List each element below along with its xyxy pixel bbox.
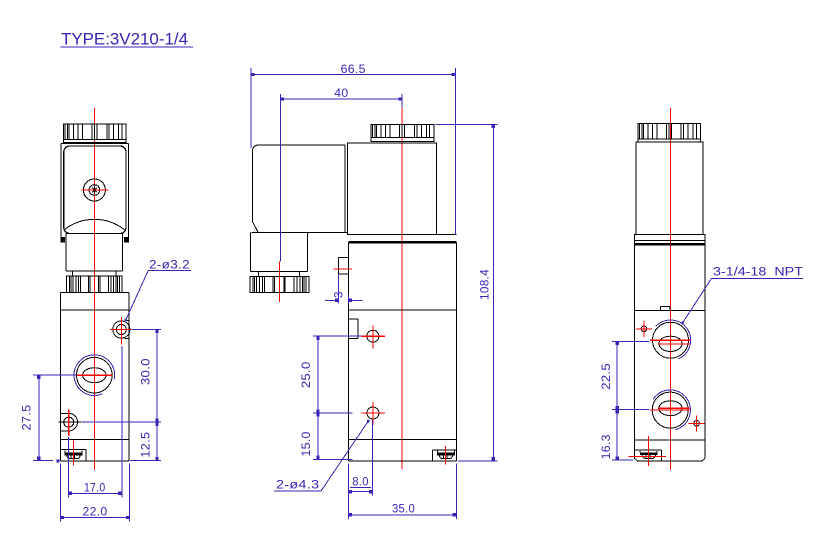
left view coil housing outer box: [61, 144, 129, 238]
dimension 27.5 left: [22, 375, 78, 462]
left view lower hole crosshair: [58, 410, 81, 437]
right view vertical center line: [669, 108, 671, 470]
right view pilot hole A: [636, 321, 652, 337]
svg-text:12.5: 12.5: [140, 432, 152, 458]
right view valve body outline: [634, 241, 705, 461]
title text TYPE:3V210-1/4: [61, 31, 193, 49]
svg-text:17.0: 17.0: [84, 483, 106, 495]
svg-text:2-ø4.3: 2-ø4.3: [276, 480, 319, 492]
dimension 108.4 right: [436, 124, 498, 461]
middle view connector stem: [251, 232, 308, 276]
left view port red crosshair: [77, 374, 112, 376]
svg-text:3-1/4-18 NPT: 3-1/4-18 NPT: [713, 266, 803, 278]
dimension 3 tab: [325, 274, 362, 304]
svg-text:15.0: 15.0: [301, 431, 313, 456]
left view port thread arc: [74, 355, 115, 396]
dimension 40 top: [280, 88, 402, 261]
right view pilot hole B: [689, 415, 705, 431]
label 2-ø3.2 with leader: [124, 259, 191, 322]
left view screw red crosshair: [82, 189, 109, 191]
middle view connector red center line: [278, 262, 280, 303]
svg-text:3: 3: [334, 291, 346, 298]
middle view mounting hole lower red crosshair: [361, 402, 385, 425]
left view neck tube: [66, 234, 123, 277]
svg-text:25.0: 25.0: [301, 361, 313, 388]
left view mounting hole boss (2-ø3.2): [113, 321, 130, 339]
dimension 30.0 left: [132, 330, 162, 423]
dimension 66.5 top: [251, 64, 455, 235]
left view bracket red center line: [72, 441, 74, 466]
left view valve body outline: [60, 292, 128, 460]
right view port 1 red crosshair: [650, 340, 691, 344]
left view bottom bracket notch: [60, 450, 85, 461]
right view small tab: [660, 307, 670, 311]
dimension 35.0 bottom: [348, 464, 456, 520]
svg-text:66.5: 66.5: [341, 64, 366, 76]
right view port 2 red crosshair: [650, 408, 691, 410]
right view port 2 (1/4-18 NPT): [652, 392, 688, 428]
left view knurled nut: [67, 276, 123, 292]
middle view mounting hole upper red crosshair: [361, 325, 385, 348]
left view lower hole boss: [60, 413, 77, 431]
dimension 15.0 middle: [301, 413, 353, 459]
svg-text:108.4: 108.4: [480, 269, 492, 300]
left view port circle: [77, 357, 113, 393]
middle view body section line: [349, 309, 457, 311]
dimension 16.3 right: [601, 410, 649, 461]
right view flange plate: [634, 235, 705, 241]
middle view valve body outline: [349, 242, 457, 461]
middle view solenoid knurled cap: [371, 124, 434, 141]
left view center screw: [83, 179, 105, 201]
svg-text:2-ø3.2: 2-ø3.2: [149, 259, 190, 271]
label 2-ø4.3 with leader: [274, 420, 370, 492]
svg-text:16.3: 16.3: [601, 434, 613, 459]
svg-text:35.0: 35.0: [392, 503, 415, 515]
dimension 8.0 bottom: [348, 420, 372, 519]
middle view solenoid body: [348, 143, 437, 235]
svg-text:22.5: 22.5: [601, 363, 613, 390]
middle view 3mm tab red tick: [334, 268, 352, 270]
dimension 22.5 right: [601, 341, 649, 409]
right view knurled cap: [638, 124, 700, 142]
dimension 17.0 left: [68, 346, 122, 498]
dimension 25.0 middle: [301, 336, 361, 413]
label 3-1/4-18 NPT with leader: [681, 266, 803, 324]
right view port 1 (1/4-18 NPT): [653, 322, 689, 358]
svg-text:30.0: 30.0: [140, 358, 152, 385]
svg-text:8.0: 8.0: [352, 476, 369, 488]
left view coil housing inner rounded face: [64, 146, 126, 234]
svg-text:22.0: 22.0: [83, 507, 108, 519]
left view mounting hole red crosshair: [110, 317, 131, 345]
left view lower section line: [60, 439, 128, 441]
left view body section line: [60, 309, 128, 311]
middle view valve top plate: [349, 235, 457, 243]
middle view mounting hole lower (ø4.3): [367, 407, 379, 419]
right view lower section line: [634, 439, 705, 441]
right view body section line: [634, 310, 705, 312]
middle view DIN connector body: [252, 145, 348, 232]
middle view lower section line: [349, 439, 457, 441]
svg-text:TYPE:3V210-1/4: TYPE:3V210-1/4: [61, 31, 188, 49]
left view coil dome arc: [64, 219, 124, 233]
right view solenoid body: [636, 142, 703, 235]
middle view connector knurled nut: [250, 276, 309, 292]
middle view bottom bracket notch: [432, 450, 456, 461]
left view coil bottom notch right: [124, 237, 129, 243]
svg-text:27.5: 27.5: [22, 405, 34, 431]
left view vertical center line: [93, 108, 95, 470]
dimension 12.5 left: [82, 422, 161, 460]
middle view bracket red center line: [444, 446, 446, 465]
right view port 2 thread arc: [653, 390, 690, 430]
right view bracket red center line: [628, 436, 666, 466]
right view port 1 thread arc: [656, 320, 691, 359]
left view knurled adjustment cap: [64, 124, 126, 142]
left view coil bottom notch left: [60, 237, 65, 243]
middle view 3mm tab: [339, 258, 349, 274]
middle view side port tab: [349, 319, 358, 339]
dimension 22.0 left: [60, 464, 129, 522]
right view bottom bracket notch: [634, 450, 661, 461]
svg-text:40: 40: [334, 88, 348, 100]
middle view mounting hole upper (ø4.3): [367, 330, 379, 342]
middle view solenoid red center line: [401, 94, 403, 470]
right view valve body top thick line: [634, 243, 705, 245]
